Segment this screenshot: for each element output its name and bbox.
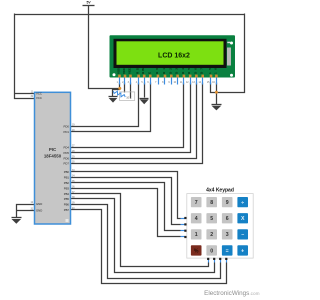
keypad 4x4 — [181, 187, 254, 262]
svg-text:PB7: PB7 — [64, 208, 70, 212]
LCD pin 6 E — [149, 75, 152, 78]
svg-text:4: 4 — [195, 216, 198, 222]
wire PB1 to keypad row2 — [71, 178, 181, 225]
svg-text:8: 8 — [210, 200, 213, 206]
svg-text:PD4: PD4 — [64, 145, 70, 149]
svg-text:9: 9 — [226, 200, 229, 206]
svg-text:LCD 16x2: LCD 16x2 — [158, 52, 190, 59]
svg-text:PB0: PB0 — [64, 170, 70, 174]
keypad col pin 3 — [220, 260, 222, 263]
wire PB4 to keypad col1 — [71, 194, 209, 267]
node junction (backlight) — [215, 91, 218, 94]
wire LCD VCC to pot — [124, 83, 126, 93]
svg-text:PB5: PB5 — [64, 197, 70, 201]
svg-text:ElectronicWings.com: ElectronicWings.com — [204, 290, 259, 297]
ground (LCD backlight) — [212, 105, 222, 111]
keypad key + — [237, 245, 248, 255]
svg-text:7: 7 — [195, 200, 198, 206]
LCD pin 12 D5 — [189, 75, 192, 78]
wire PB2 to keypad row3 — [71, 183, 181, 231]
svg-text:5: 5 — [210, 216, 213, 222]
LCD pin 14 D7 — [201, 75, 204, 78]
LCD pin 8 D1 — [164, 75, 167, 78]
PIC pin labels — [30, 92, 75, 213]
svg-text:GND: GND — [36, 202, 42, 206]
svg-text:RS: RS — [136, 68, 140, 74]
wire PB6 to keypad col3 — [71, 205, 221, 279]
svg-text:3: 3 — [226, 232, 229, 238]
keypad key 2 — [206, 229, 217, 239]
wire 5V drop to LCD contrast node — [89, 6, 121, 89]
LCD pin 15 15 — [210, 75, 213, 78]
keypad key div — [237, 197, 248, 207]
LCD pin 16 16 — [215, 75, 218, 78]
keypad key 1 — [191, 229, 202, 239]
svg-text:E: E — [147, 72, 151, 74]
keypad key 9 — [222, 197, 233, 207]
PIC U1 18F4550 — [35, 92, 71, 224]
LCD pin 9 D2 — [170, 75, 173, 78]
wire 5V rail top — [15, 14, 245, 16]
keypad col pin 2 — [214, 260, 216, 263]
svg-text:X: X — [241, 216, 245, 222]
wire LCD LED+ to 5V — [211, 83, 217, 93]
keypad row pin 2 — [181, 224, 185, 226]
potentiometer 10K (contrast) — [113, 91, 135, 100]
LCD pin 4 RS — [137, 75, 140, 78]
LCD pin 7 D0 — [157, 75, 160, 78]
svg-text:PD7: PD7 — [64, 162, 70, 166]
wire VCC pin11 branch — [15, 93, 35, 95]
wire PB7 to keypad col4 — [71, 210, 227, 284]
wire PB0 to keypad row1 — [71, 172, 181, 219]
ground (PIC) — [12, 218, 22, 224]
svg-text:−: − — [241, 232, 244, 238]
wire D4 to PIC PD4 — [71, 83, 184, 148]
keypad key 7 — [191, 197, 202, 207]
keypad key 6 — [222, 213, 233, 223]
wire LCD VSS to ground — [113, 83, 120, 97]
svg-text:RW: RW — [141, 68, 145, 74]
keypad key % — [191, 245, 202, 255]
keypad col pin 1 — [208, 260, 210, 263]
svg-text:PB1: PB1 — [64, 176, 70, 180]
svg-text:PD6: PD6 — [64, 156, 70, 160]
power 5V — [83, 1, 95, 6]
svg-text:PB6: PB6 — [64, 203, 70, 207]
wire D7 to PIC PD7 — [71, 83, 203, 164]
svg-text:VCC: VCC — [122, 67, 126, 74]
svg-text:4x4 Keypad: 4x4 Keypad — [206, 187, 234, 193]
keypad key X — [237, 213, 248, 223]
keypad key 3 — [222, 229, 233, 239]
wire D6 to PIC PD6 — [71, 83, 197, 159]
node junction (contrast) — [118, 87, 121, 90]
keypad row pin 1 — [181, 218, 185, 220]
keypad key minus — [237, 229, 248, 239]
LCD pin pads + leads — [117, 67, 218, 84]
keypad key = — [222, 245, 233, 255]
svg-text:PIC: PIC — [49, 147, 57, 152]
svg-text:10 K: 10 K — [126, 96, 132, 100]
wire left drop to PIC VCC — [15, 14, 35, 99]
svg-text:VCC: VCC — [36, 92, 42, 96]
wire LCD RW to ground — [144, 83, 146, 98]
svg-text:GND: GND — [36, 209, 42, 213]
svg-text:=: = — [226, 248, 229, 254]
keypad key 8 — [206, 197, 217, 207]
svg-text:PD0: PD0 — [64, 125, 70, 129]
keypad row pin 3 — [181, 230, 185, 232]
svg-text:VCC: VCC — [36, 96, 42, 100]
svg-text:PD1: PD1 — [64, 130, 70, 134]
wire LCD LED- to ground — [216, 83, 218, 105]
svg-text:18F4550: 18F4550 — [44, 154, 62, 159]
wire E to PIC PD1 — [71, 83, 151, 132]
keypad col pin 4 — [226, 260, 228, 263]
svg-text:5V: 5V — [87, 1, 92, 5]
ground (LCD VSS) — [109, 97, 118, 103]
LCD pin 13 D6 — [195, 75, 198, 78]
svg-text:0: 0 — [210, 248, 213, 254]
LCD pin 1 VSS — [118, 75, 121, 78]
svg-text:VSS: VSS — [117, 68, 121, 74]
svg-text:PB4: PB4 — [64, 192, 70, 196]
svg-text:PB2: PB2 — [64, 181, 70, 185]
LCD module 16x2 — [110, 35, 236, 77]
keypad key 0 — [206, 245, 217, 255]
svg-text:2: 2 — [210, 232, 213, 238]
svg-text:PB3: PB3 — [64, 186, 70, 190]
wire right drop to LCD backlight — [217, 14, 245, 93]
svg-text:%: % — [194, 248, 199, 254]
LCD pin 3 VEE — [129, 75, 132, 78]
keypad key 4 — [191, 213, 202, 223]
LCD pin 10 D3 — [176, 75, 179, 78]
svg-text:÷: ÷ — [241, 200, 244, 206]
wire PB5 to keypad col2 — [71, 199, 215, 273]
LCD pin 2 VCC — [124, 75, 127, 78]
keypad row pin 4 — [181, 236, 185, 238]
LCD pin 11 D4 — [183, 75, 186, 78]
svg-text:VEE: VEE — [128, 68, 132, 74]
wire LCD VEE to pot wiper — [130, 83, 132, 99]
svg-text:PD5: PD5 — [64, 151, 70, 155]
wire D5 to PIC PD5 — [71, 83, 191, 153]
wire PB3 to keypad row4 — [71, 189, 181, 237]
svg-text:+: + — [241, 248, 244, 254]
ground (LCD RW) — [140, 99, 149, 105]
wire PIC GND pins to ground — [17, 205, 35, 218]
svg-text:1: 1 — [195, 232, 198, 238]
keypad key 5 — [206, 213, 217, 223]
wire RS to PIC PD0 — [71, 83, 139, 127]
svg-text:6: 6 — [226, 216, 229, 222]
LCD pin 5 RW — [143, 75, 146, 78]
